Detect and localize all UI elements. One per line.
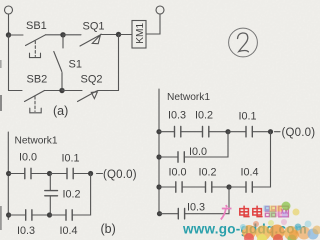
- wire node C to SQ2: [62, 90, 82, 92]
- wire I0.2 to node I: [212, 186, 229, 188]
- svg-text:I0.0: I0.0: [189, 146, 207, 158]
- svg-text:I0.0: I0.0: [19, 152, 37, 164]
- contact I0.1 r1 bars: [246, 127, 252, 137]
- svg-text:(a): (a): [53, 104, 68, 118]
- watermark char qi (vector) mosaic base: [265, 206, 277, 216]
- wire node G to I0.1: [228, 131, 246, 133]
- svg-text:I0.4: I0.4: [60, 225, 78, 237]
- switch S1 top wire: [62, 35, 64, 48]
- pushbutton SB2 operator cup: [30, 108, 41, 113]
- pushbutton SB1 link dashed: [34, 41, 36, 57]
- wire I0.3 to node F: [32, 214, 50, 216]
- limit switch SQ1 blade: [80, 35, 101, 47]
- svg-text:I0.3: I0.3: [187, 202, 205, 214]
- wire I0.0 to I0.2 r3: [182, 186, 205, 188]
- watermark char dian 2 (vector) red: [253, 206, 263, 217]
- svg-text:I0.1: I0.1: [62, 153, 80, 165]
- scan edge artifacts: [0, 60, 2, 230]
- switch S1 bottom wire: [61, 73, 63, 91]
- watermark char guang (vector) pink: [221, 205, 232, 219]
- contact I0.0 r2 bars: [178, 152, 184, 162]
- figure number circle 2: [229, 28, 258, 57]
- wire node I to I0.4: [229, 186, 246, 188]
- node rung1 rail dot: [6, 171, 11, 176]
- wire top rail to SB1: [9, 34, 24, 36]
- node D junction dot: [47, 171, 52, 176]
- wire I0.2 to node G: [209, 131, 228, 133]
- node C junction dot: [59, 88, 64, 93]
- contact I0.3 r1 bars: [175, 127, 181, 137]
- wire KM1 to right terminal: [146, 14, 160, 34]
- svg-text:I0.0: I0.0: [169, 167, 187, 179]
- coil KM1 box: [132, 21, 146, 49]
- wire from left terminal down: [8, 14, 10, 33]
- contact I0.0 bars: [25, 168, 31, 178]
- watermark char dian 1 (vector) red: [240, 206, 250, 217]
- terminal circle left top: [5, 6, 13, 14]
- svg-text:KM1: KM1: [135, 23, 146, 44]
- wire node H to coil: [275, 131, 281, 133]
- wire SQ2 to right riser: [98, 90, 119, 92]
- watermark mosaic patches: [264, 206, 288, 218]
- svg-text:I0.3: I0.3: [17, 225, 35, 237]
- limit switch SQ2 blade: [78, 91, 97, 102]
- svg-text:Network1: Network1: [167, 92, 210, 103]
- wire r2 to I0.0: [159, 156, 178, 158]
- wire SQ1 to node B: [101, 34, 119, 36]
- svg-text:I0.2: I0.2: [195, 110, 213, 122]
- svg-text:I0.2: I0.2: [63, 189, 81, 201]
- svg-text:(Q0.0): (Q0.0): [103, 169, 137, 181]
- watermark mascot blobs: [240, 202, 320, 240]
- node r4 rail dot: [157, 211, 162, 216]
- node F junction dot: [47, 212, 52, 217]
- contact I0.1 bars: [67, 168, 73, 178]
- contact I0.2 vertical bars: [45, 191, 58, 196]
- network (b): [6, 132, 103, 220]
- limit switch SQ1 wedge: [92, 35, 100, 44]
- pushbutton SB1 blade: [26, 35, 46, 46]
- svg-text:I0.2: I0.2: [199, 167, 217, 179]
- node r1 rail dot: [156, 129, 161, 134]
- wire I0.4 up to node E: [72, 174, 90, 216]
- wire SB2 to node C: [45, 90, 63, 92]
- contact I0.4 bars: [66, 210, 72, 220]
- node E junction dot: [88, 171, 93, 176]
- svg-text:I0.1: I0.1: [239, 111, 257, 123]
- node rung2 rail dot: [6, 212, 11, 217]
- wire I0.4 up to node H: [252, 132, 270, 187]
- wire I0.3 r4 up to node I: [185, 187, 229, 214]
- svg-text:I0.4: I0.4: [241, 167, 259, 179]
- node B junction dot: [116, 32, 121, 37]
- watermark char wang (vector) mosaic base: [279, 206, 289, 217]
- terminal circle right top: [156, 6, 164, 14]
- wire I0.0 r2 up to node G: [184, 132, 228, 157]
- wire I0.0 to node D: [31, 173, 50, 175]
- node left rail junction: [6, 32, 11, 37]
- node r3 rail dot: [156, 184, 161, 189]
- pushbutton SB2 link dashed: [34, 97, 36, 112]
- node A junction dot: [60, 32, 65, 37]
- svg-text:SQ1: SQ1: [83, 21, 105, 33]
- contact I0.0 r3 bars: [176, 182, 182, 192]
- contact I0.2 r3 bars: [206, 182, 212, 192]
- wire bottom rail to SB2: [9, 90, 23, 92]
- svg-text:(b): (b): [101, 222, 116, 236]
- wire node B to coil KM1: [119, 34, 133, 36]
- switch S1 blade: [54, 52, 62, 72]
- wire r1 to I0.3: [159, 131, 174, 133]
- branch wire node D down: [49, 174, 51, 191]
- svg-text:(Q0.0): (Q0.0): [282, 127, 316, 139]
- svg-text:S1: S1: [69, 59, 82, 71]
- pushbutton SB1 operator cup: [30, 53, 41, 57]
- wire rung1 to I0.0: [8, 173, 24, 175]
- left power rail right network: [158, 89, 160, 214]
- wire r3 to I0.0: [159, 186, 176, 188]
- contact I0.3 bars: [26, 210, 32, 220]
- limit switch SQ2 wedge: [91, 92, 97, 99]
- contact I0.4 r3 bars: [246, 182, 252, 192]
- svg-text:Network1: Network1: [15, 136, 58, 147]
- svg-text:I0.3: I0.3: [168, 110, 186, 122]
- wire left rail vertical: [8, 35, 10, 91]
- contact I0.3 r4 bars: [178, 209, 184, 219]
- wire node D to I0.1: [50, 173, 67, 175]
- right ladder network: [156, 89, 280, 219]
- svg-text:SB1: SB1: [26, 20, 47, 32]
- wire SB1 to node A: [46, 34, 64, 36]
- wire r4 to I0.3: [159, 213, 178, 215]
- node H junction dot: [268, 129, 273, 134]
- branch wire I0.2 down: [49, 196, 51, 215]
- wire node E to coil Q0.0: [97, 173, 103, 175]
- wire I0.3 to I0.2 r1: [181, 131, 203, 133]
- node r2 rail dot: [156, 154, 161, 159]
- wire I0.1 to node E: [73, 173, 90, 175]
- svg-text:SB2: SB2: [27, 74, 48, 86]
- left power rail (b): [7, 132, 9, 220]
- wire node A to SQ1: [63, 34, 81, 36]
- contact I0.2 r1 bars: [203, 127, 209, 137]
- wire rung2 to I0.3: [8, 214, 25, 216]
- node G junction dot: [225, 129, 230, 134]
- wire node B down right riser: [118, 35, 120, 91]
- wire node F to I0.4: [50, 214, 66, 216]
- wire I0.1 to node H: [252, 131, 270, 133]
- pushbutton SB2 blade: [25, 91, 45, 102]
- node I junction dot: [226, 184, 231, 189]
- svg-text:SQ2: SQ2: [81, 74, 103, 86]
